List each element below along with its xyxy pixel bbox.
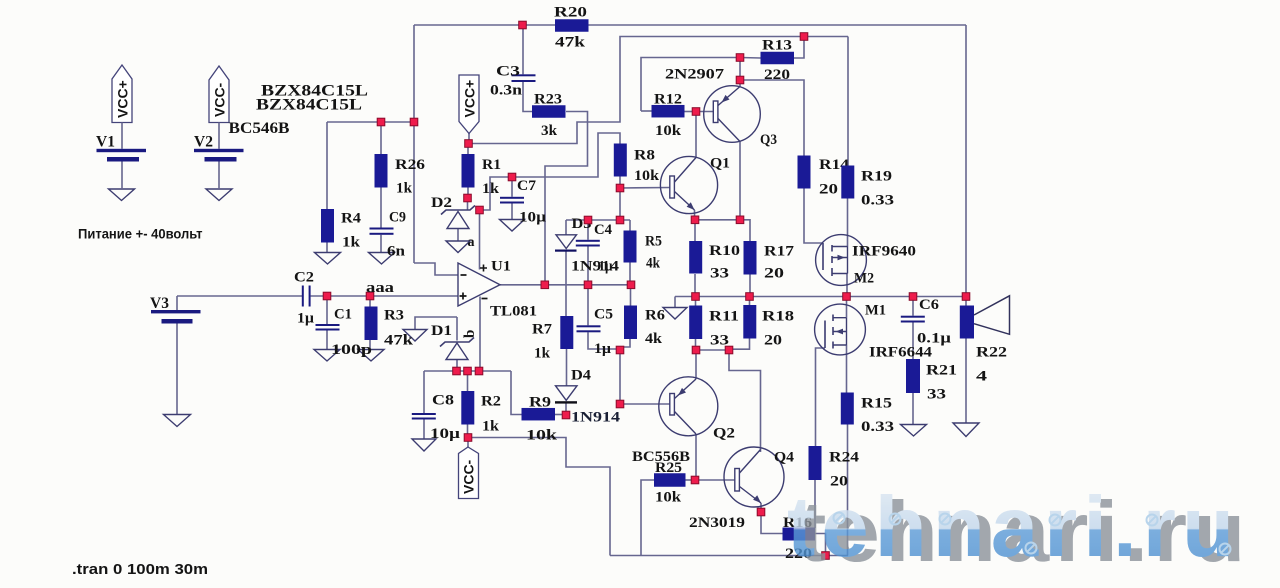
junction R26 top <box>377 118 385 126</box>
svg-text:BC556B: BC556B <box>632 449 690 465</box>
ground C8 <box>412 439 436 451</box>
resistor R7 <box>532 316 573 362</box>
ground R3 <box>358 350 384 362</box>
transistor Q1 (NPN) <box>660 156 730 214</box>
svg-text:2N3019: 2N3019 <box>689 515 745 531</box>
MOSFET M1 (IRF6644 NMOS) <box>815 303 933 361</box>
wire R19 to M2 drain <box>847 199 849 247</box>
svg-text:C6: C6 <box>919 297 940 313</box>
svg-text:Питание +- 40вольт: Питание +- 40вольт <box>78 227 203 242</box>
svg-text:b: b <box>462 330 478 338</box>
wire R5 top lead <box>629 220 631 231</box>
junction Q1 emitter <box>691 216 699 224</box>
svg-text:R13: R13 <box>762 38 792 54</box>
wire bottom rail y=555.5 <box>610 555 848 557</box>
wire C9 to ground <box>380 235 382 253</box>
wire Q1 base lead <box>620 187 670 190</box>
svg-text:D4: D4 <box>571 368 592 384</box>
junction node b-plus at D2 <box>476 206 484 214</box>
junction output / feedback <box>541 281 549 289</box>
wire R9 left lead from node row <box>511 371 522 415</box>
wire output bus ground stub <box>674 297 676 308</box>
svg-text:BZX84C15L: BZX84C15L <box>256 97 362 114</box>
wire R4 top lead <box>326 122 328 209</box>
ground C1 <box>314 350 340 362</box>
junction output / C4-C5 <box>584 281 592 289</box>
ground C7 <box>500 220 525 232</box>
wire R10 top lead <box>694 220 696 241</box>
resistor R15 <box>841 393 894 436</box>
wire input line V3 to op-amp + <box>177 295 302 297</box>
svg-text:C5: C5 <box>594 307 613 323</box>
svg-text:4k: 4k <box>646 256 661 272</box>
junction node row R2 <box>464 367 472 375</box>
svg-text:10k: 10k <box>655 123 682 139</box>
wire R26 top lead <box>380 122 382 154</box>
wire input line after C2 <box>311 295 458 297</box>
resistor R11 <box>689 306 739 349</box>
svg-text:R2: R2 <box>481 394 501 410</box>
svg-text:1N914: 1N914 <box>571 410 621 426</box>
junction bus / speaker <box>962 293 970 301</box>
wire R9 right lead <box>555 414 566 416</box>
svg-text:C3: C3 <box>496 64 520 80</box>
wire R18 bottom jog <box>729 339 750 350</box>
svg-text:10k: 10k <box>526 428 558 444</box>
junction Q3 emitter / R14 feed <box>736 76 744 84</box>
resistor R13 <box>761 38 795 84</box>
svg-text:1k: 1k <box>342 235 361 251</box>
junction R17 top <box>736 216 744 224</box>
wire VCC- flag stem <box>467 438 469 448</box>
wire R5-R6 through output junction <box>630 285 632 306</box>
ground C9 <box>369 253 395 265</box>
MOSFET M2 (IRF9640 PMOS) <box>816 235 916 287</box>
wire V2 to ground <box>218 162 220 190</box>
ground D2 node <box>446 241 470 253</box>
svg-text:C9: C9 <box>389 210 406 226</box>
svg-text:VCC-: VCC- <box>212 82 228 117</box>
svg-text:VCC-: VCC- <box>461 459 477 494</box>
svg-text:1N914: 1N914 <box>571 259 620 275</box>
svg-text:R8: R8 <box>634 148 655 164</box>
wire Q3 base lead <box>696 111 714 113</box>
svg-text:R17: R17 <box>764 244 795 260</box>
svg-text:V1: V1 <box>96 134 115 151</box>
resistor R21 <box>906 359 957 403</box>
wire C8 top stem <box>423 371 425 413</box>
wire Q2 emitter stem <box>695 350 697 379</box>
wire Q4 collector stem <box>760 449 762 453</box>
svg-text:Q1: Q1 <box>710 156 730 172</box>
svg-text:R23: R23 <box>534 92 562 108</box>
resistor R4 <box>321 209 362 251</box>
wire Q3 emitter rail <box>739 58 741 87</box>
svg-text:C1: C1 <box>334 307 352 323</box>
svg-text:C4: C4 <box>594 222 612 238</box>
wire D3 node row y=220 <box>566 219 630 221</box>
wire R11 bottom lead <box>695 339 697 350</box>
svg-text:IRF9640: IRF9640 <box>852 244 916 260</box>
wire C1 stem <box>326 296 328 324</box>
capacitor C2 <box>294 270 314 327</box>
wire R2 bottom lead <box>467 425 469 438</box>
svg-text:R11: R11 <box>709 309 739 325</box>
svg-text:33: 33 <box>710 266 729 282</box>
wire D3 anode stem <box>565 220 567 235</box>
diode D3 <box>555 216 592 252</box>
wire R2 junction to staircase <box>468 438 610 556</box>
svg-text:tehnari.ru: tehnari.ru <box>787 480 1234 575</box>
wire M2 source to output bus <box>846 274 848 297</box>
wire D2 anode to ground <box>457 229 459 242</box>
wire V3 stem up <box>176 296 178 310</box>
voltage source V1 <box>96 134 146 162</box>
svg-text:IRF6644: IRF6644 <box>869 345 933 361</box>
wire D4 cathode to junction <box>565 404 567 416</box>
svg-text:47k: 47k <box>555 35 586 51</box>
wire R25 right lead <box>686 479 696 481</box>
speaker load R22 <box>960 296 1010 385</box>
svg-text:4: 4 <box>976 369 988 385</box>
svg-text:R4: R4 <box>341 211 362 227</box>
svg-text:R26: R26 <box>395 157 426 173</box>
svg-text:C8: C8 <box>432 393 454 409</box>
resistor R1 <box>462 154 502 197</box>
wire C7 stem upper <box>511 177 513 197</box>
wire VCC+ flag stem to junction <box>468 134 470 144</box>
svg-text:1k: 1k <box>482 181 500 197</box>
wire R6 bottom jog to junction <box>620 339 630 350</box>
wire R7 bottom to D4 <box>566 349 568 386</box>
wire VCC+ down to R19 <box>847 37 849 166</box>
resistor R19 <box>841 166 894 209</box>
wire R16 left feed from Q4 emitter <box>761 512 783 534</box>
wire R24 bottom lead <box>814 480 816 528</box>
wire node row y=371 <box>424 370 511 372</box>
svg-text:0.33: 0.33 <box>861 419 894 435</box>
wire R1 bottom lead <box>467 188 469 199</box>
resistor R24 <box>809 446 860 490</box>
svg-text:6n: 6n <box>387 244 406 260</box>
wire R12 right lead <box>685 111 697 113</box>
svg-text:R15: R15 <box>861 396 892 412</box>
wire R10-R11 link <box>695 297 697 306</box>
svg-text:R12: R12 <box>654 92 682 108</box>
capacitor C8 <box>412 393 461 443</box>
svg-text:3k: 3k <box>541 123 558 139</box>
svg-text:R3: R3 <box>384 308 404 324</box>
wire R16 right lead <box>815 534 826 556</box>
power flag VCC+ (U1 supply) <box>459 75 479 134</box>
transistor Q4 (NPN 2N3019) <box>724 447 795 507</box>
junction output / R5-R6 <box>627 281 635 289</box>
wire zener net to R8 top <box>480 133 621 210</box>
zener diode D1 <box>431 323 474 360</box>
svg-text:VCC+: VCC+ <box>115 80 131 118</box>
wire Q2 collector stem <box>695 434 697 477</box>
capacitor C5 <box>577 307 614 358</box>
ground V3 <box>164 415 191 427</box>
junction Q4 emitter <box>757 508 765 516</box>
M2 arrow <box>838 255 846 261</box>
svg-text:R5: R5 <box>645 234 662 250</box>
resistor R3 <box>365 307 414 349</box>
ground output bus <box>663 308 687 320</box>
svg-text:R1: R1 <box>482 157 501 173</box>
wire R1 top lead <box>467 144 469 155</box>
svg-text:U1: U1 <box>491 259 511 275</box>
voltage source V3 <box>150 295 201 324</box>
wire C4 top stem <box>587 220 589 240</box>
svg-text:10µ: 10µ <box>430 426 460 442</box>
wire R12 left lead <box>641 110 652 112</box>
junction node aaa <box>366 292 374 300</box>
wire D1 cathode top stem <box>456 317 458 341</box>
junction R13-Q3 emitter rail <box>736 54 744 62</box>
wire C1 to ground <box>326 331 328 350</box>
junction R2 bottom / VCC- <box>464 434 472 442</box>
svg-text:a: a <box>468 235 475 250</box>
wire R17-R18 link <box>749 297 751 306</box>
resistor R14 <box>798 156 850 198</box>
svg-text:R22: R22 <box>976 345 1007 361</box>
wire R26 to C9 <box>380 188 382 228</box>
svg-text:M2: M2 <box>854 271 874 287</box>
svg-text:BC546B: BC546B <box>229 120 290 137</box>
svg-text:V3: V3 <box>150 295 169 312</box>
wire Q4 base lead <box>695 479 735 481</box>
wire R13 left lead <box>740 57 761 60</box>
junction bottom rail / R16 <box>822 552 830 560</box>
svg-text:TL081: TL081 <box>490 304 537 320</box>
wire R8 bottom lead through junctions <box>619 177 621 221</box>
wire node row y=122 left <box>327 121 414 123</box>
svg-text:R24: R24 <box>829 450 860 466</box>
power flag VCC+ (V1) <box>112 65 132 123</box>
svg-text:R9: R9 <box>529 395 551 411</box>
svg-text:33: 33 <box>927 387 946 403</box>
wire R5 bottom lead <box>629 263 631 285</box>
capacitor C9 <box>370 210 407 260</box>
wire y=80 to R14 <box>740 80 804 156</box>
wire C5 top stem <box>587 285 589 326</box>
wire V1 to ground <box>121 162 123 190</box>
wire R21 to ground <box>912 393 914 425</box>
svg-text:1µ: 1µ <box>297 311 314 327</box>
resistor R5 <box>624 231 663 272</box>
junction top C3 <box>519 21 527 29</box>
svg-text:C2: C2 <box>294 270 314 286</box>
wire C7 stem lower to ground <box>511 204 513 220</box>
svg-text:Q2: Q2 <box>713 426 735 442</box>
transistor Q2 (PNP BC556B) <box>659 377 735 442</box>
wire Q4 emitter stem <box>760 503 762 512</box>
resistor R23 <box>532 92 566 140</box>
junction Q1 collector / Q3 base <box>692 108 700 116</box>
svg-text:0.33: 0.33 <box>861 193 894 209</box>
wire R13 right lead up <box>794 37 804 59</box>
Q4 emitter arrow <box>753 495 761 503</box>
junction VCC+ / R13 <box>800 33 808 41</box>
Q2 emitter arrow <box>678 388 686 396</box>
svg-text:20: 20 <box>764 266 784 282</box>
resistor R26 <box>375 154 426 197</box>
wire R3 top lead <box>369 296 371 307</box>
junction D3 row / R8 net <box>616 216 624 224</box>
svg-text:R7: R7 <box>532 322 553 338</box>
wire jog to R17 <box>740 220 750 241</box>
svg-text:1k: 1k <box>482 419 500 435</box>
wire C5 junction down to Q2 base junction <box>619 350 621 404</box>
svg-text:C7: C7 <box>517 178 537 194</box>
wire left rail x=414 (inverting input feed) <box>413 25 415 263</box>
ground D1 node <box>403 330 427 342</box>
junction inverting feed corner <box>410 118 418 126</box>
wire C4 bottom stem <box>587 247 589 285</box>
capacitor C7 <box>500 178 546 226</box>
wire U1 V- pin down to node row <box>479 297 481 372</box>
svg-text:D2: D2 <box>431 195 452 211</box>
junction Q4 base / Q2 collector <box>691 476 699 484</box>
wire D3 cathode to R7 top <box>565 252 567 317</box>
resistor R18 <box>743 305 794 349</box>
resistor R17 <box>744 241 795 282</box>
wire driver node row y=350 <box>696 349 729 351</box>
capacitor C1 <box>316 307 373 359</box>
wire V2 flag stem <box>218 123 220 149</box>
wire R25 left lead to bottom rail <box>641 480 654 556</box>
wire D1 cathode to ground jog <box>415 317 457 330</box>
wire right rail x=966 down to output bus <box>965 25 967 297</box>
svg-text:1µ: 1µ <box>594 341 611 357</box>
wire R17 bottom lead <box>749 275 751 297</box>
wire VCC+ distribution <box>468 37 848 144</box>
op-amp U1 TL081 <box>458 259 537 320</box>
svg-text:20: 20 <box>764 333 782 349</box>
junction D4 / R9 <box>562 411 570 419</box>
wire speaker to ground <box>965 339 967 424</box>
resistor R6 <box>624 306 666 348</box>
wire R10 bottom lead <box>694 274 696 297</box>
svg-text:47k: 47k <box>384 333 414 349</box>
wire R14 bottom to M2 gate <box>804 189 823 244</box>
svg-text:100p: 100p <box>331 342 372 358</box>
junction C7 / zener net <box>508 173 516 181</box>
wire R23 right lead to feedback drop <box>545 112 588 286</box>
wire C8 to ground <box>423 420 425 440</box>
junction Q2 base node <box>616 400 624 408</box>
wire to Q4 collector <box>729 350 761 449</box>
wire C3 bottom to R23 left lead <box>523 82 532 112</box>
wire speaker top lead <box>965 297 967 306</box>
svg-text:10k: 10k <box>655 490 682 506</box>
junction bus / R17-R18 <box>746 293 754 301</box>
wire Q1 emitter to junction <box>694 210 696 220</box>
junction node row D1 <box>453 367 461 375</box>
wire R1 junction to D2 cathode <box>467 198 469 210</box>
Q3 emitter arrow <box>722 95 730 103</box>
junction R8 bottom / Q1 base <box>616 184 624 192</box>
resistor R20 <box>554 5 589 51</box>
svg-text:1k: 1k <box>534 346 551 362</box>
wire Q2 base lead <box>620 403 670 405</box>
power flag VCC- (bottom) <box>459 447 479 499</box>
capacitor C6 <box>901 297 952 347</box>
ground C6/R21 <box>901 425 927 437</box>
ground speaker <box>953 423 979 437</box>
resistor R9 <box>522 395 558 444</box>
svg-text:20: 20 <box>819 182 838 198</box>
wire C6 top stem <box>912 297 914 316</box>
wire C5 bottom to junction <box>588 332 617 349</box>
wire M1 drain to bus <box>846 297 848 318</box>
wire D1 anode stem <box>456 360 458 371</box>
svg-text:0.3n: 0.3n <box>490 83 523 99</box>
capacitor C3 <box>490 64 536 99</box>
power flag VCC- (V2) <box>209 66 229 123</box>
wire Q1 collector stem <box>695 115 697 158</box>
resistor R16 <box>783 515 816 562</box>
svg-text:aaa: aaa <box>366 280 395 296</box>
wire C3 top stem <box>522 25 524 74</box>
junction D3 / C4 <box>584 216 592 224</box>
junction bus / R10 <box>692 293 700 301</box>
wire output bus y=296.5 <box>675 296 966 298</box>
capacitor C4 <box>576 222 613 275</box>
wire M1 gate down to R24 <box>816 348 826 446</box>
wire Q3 collector rail <box>739 142 741 221</box>
ground V1 <box>109 189 135 201</box>
wire emitter row y=220 <box>695 219 740 221</box>
wire V3 to ground <box>176 324 178 415</box>
svg-text:VCC+: VCC+ <box>462 80 478 118</box>
wire M1 source to R15 <box>846 345 848 393</box>
svg-text:R6: R6 <box>645 308 666 324</box>
junction bus / C6 <box>909 293 917 301</box>
junction R11 / Q2 emitter <box>692 346 700 354</box>
ground V2 <box>206 189 232 201</box>
svg-text:R20: R20 <box>554 5 587 21</box>
wire R15 to bottom rail <box>847 425 849 556</box>
ground R4 <box>315 253 341 265</box>
wire V1 flag stem <box>121 123 123 149</box>
svg-text:R18: R18 <box>762 309 794 325</box>
junction bus / M2-M1 <box>843 293 851 301</box>
transistor Q3 (PNP 2N2907) <box>704 86 777 148</box>
svg-text:R10: R10 <box>709 243 740 259</box>
resistor R2 <box>461 391 501 435</box>
zener diode D2 <box>431 195 475 229</box>
resistor R25 <box>654 460 686 506</box>
svg-text:R21: R21 <box>926 363 957 379</box>
voltage source V2 <box>194 134 244 162</box>
svg-text:R19: R19 <box>861 169 892 185</box>
watermark tehnari.ru <box>787 480 1245 580</box>
wire jog into op-amp inverting input <box>414 263 458 275</box>
svg-text:D1: D1 <box>431 323 452 339</box>
Q1 emitter arrow <box>687 202 695 210</box>
resistor R10 <box>689 241 740 282</box>
wire C6 to R21 <box>912 323 914 360</box>
svg-text:M1: M1 <box>865 303 886 319</box>
wire R12 box left <box>641 58 738 112</box>
junction C5 / R6 <box>616 346 624 354</box>
svg-text:Q3: Q3 <box>760 132 777 148</box>
resistor R8 <box>614 144 660 185</box>
junction R1 bottom / D2 <box>464 194 472 202</box>
wire R3 to ground <box>369 340 371 350</box>
